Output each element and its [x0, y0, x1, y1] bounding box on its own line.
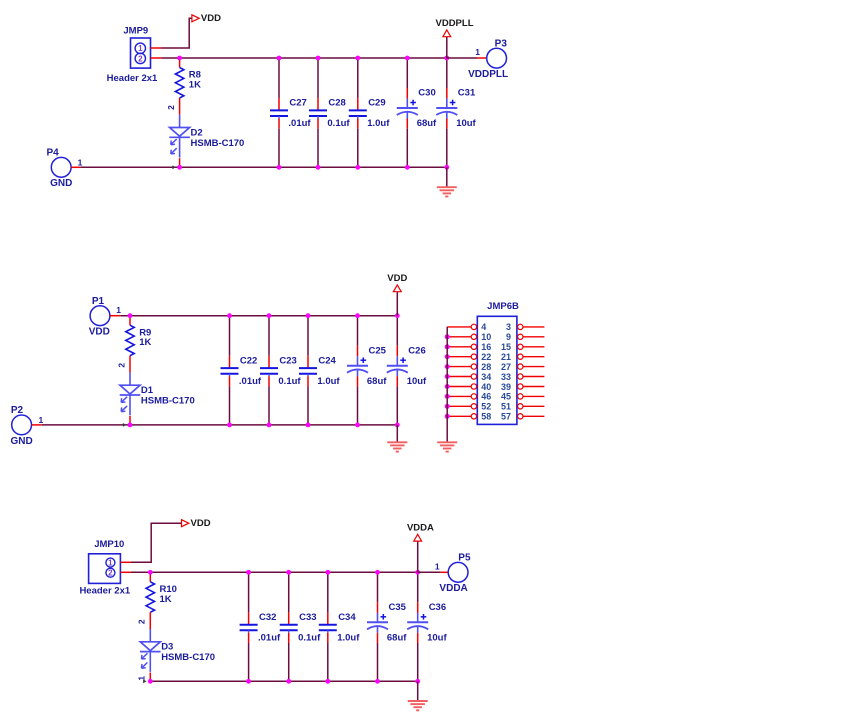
svg-text:10uf: 10uf [427, 633, 447, 644]
svg-text:58: 58 [481, 412, 491, 422]
svg-text:JMP9: JMP9 [123, 25, 148, 36]
svg-text:P5: P5 [458, 553, 471, 564]
svg-text:JMP6B: JMP6B [487, 301, 519, 312]
svg-text:C35: C35 [389, 602, 407, 613]
svg-text:C27: C27 [289, 98, 306, 109]
svg-text:16: 16 [481, 342, 491, 352]
svg-text:2: 2 [137, 619, 147, 624]
svg-text:P3: P3 [495, 39, 508, 50]
svg-text:2: 2 [138, 54, 143, 63]
svg-text:40: 40 [481, 382, 491, 392]
svg-text:VDDPLL: VDDPLL [436, 18, 474, 29]
svg-text:C24: C24 [318, 355, 336, 366]
svg-text:21: 21 [501, 352, 511, 362]
svg-text:.01uf: .01uf [258, 633, 281, 644]
svg-text:52: 52 [481, 402, 491, 412]
svg-text:C33: C33 [299, 612, 316, 623]
svg-text:68uf: 68uf [367, 376, 387, 387]
svg-text:P1: P1 [92, 296, 105, 307]
svg-text:VDD: VDD [201, 13, 221, 24]
svg-text:C30: C30 [418, 88, 435, 99]
svg-text:D3: D3 [161, 642, 173, 653]
svg-text:27: 27 [501, 362, 511, 372]
svg-text:VDD: VDD [89, 327, 110, 338]
svg-text:28: 28 [481, 362, 491, 372]
svg-text:JMP10: JMP10 [94, 539, 124, 550]
svg-text:VDDA: VDDA [407, 523, 434, 534]
svg-text:HSMB-C170: HSMB-C170 [141, 396, 195, 407]
svg-text:C36: C36 [429, 602, 446, 613]
svg-text:VDD: VDD [191, 518, 211, 529]
svg-text:1: 1 [475, 47, 480, 57]
svg-text:1K: 1K [139, 337, 151, 348]
svg-text:D1: D1 [141, 385, 154, 396]
svg-text:VDDA: VDDA [439, 583, 467, 594]
svg-text:45: 45 [501, 392, 511, 402]
svg-text:.01uf: .01uf [288, 118, 311, 129]
svg-text:1: 1 [435, 562, 440, 572]
svg-text:D2: D2 [191, 127, 203, 138]
svg-text:C26: C26 [408, 345, 425, 356]
svg-text:C31: C31 [458, 88, 476, 99]
svg-text:0.1uf: 0.1uf [327, 118, 350, 129]
svg-text:.01uf: .01uf [239, 376, 262, 387]
svg-text:Header 2x1: Header 2x1 [79, 585, 130, 596]
svg-text:C32: C32 [259, 612, 276, 623]
svg-text:46: 46 [481, 392, 491, 402]
svg-text:57: 57 [501, 412, 511, 422]
svg-text:51: 51 [501, 402, 511, 412]
svg-text:33: 33 [501, 372, 511, 382]
svg-text:0.1uf: 0.1uf [278, 376, 301, 387]
svg-text:1.0uf: 1.0uf [317, 376, 340, 387]
svg-text:C25: C25 [369, 345, 387, 356]
svg-text:C34: C34 [338, 612, 356, 623]
svg-text:22: 22 [481, 352, 491, 362]
svg-text:1: 1 [137, 676, 147, 681]
svg-text:GND: GND [50, 178, 72, 189]
svg-text:10uf: 10uf [456, 118, 476, 129]
svg-text:GND: GND [10, 436, 32, 447]
svg-text:2: 2 [108, 569, 113, 578]
svg-text:9: 9 [506, 332, 511, 342]
svg-text:34: 34 [481, 372, 491, 382]
svg-text:HSMB-C170: HSMB-C170 [191, 138, 245, 149]
svg-text:2: 2 [116, 363, 126, 368]
svg-text:1: 1 [78, 157, 83, 167]
svg-text:15: 15 [501, 342, 511, 352]
svg-text:3: 3 [506, 322, 511, 332]
svg-text:1: 1 [39, 415, 44, 425]
svg-text:2: 2 [166, 105, 176, 110]
svg-text:39: 39 [501, 382, 511, 392]
svg-text:10uf: 10uf [407, 376, 427, 387]
svg-text:1: 1 [138, 44, 143, 53]
svg-text:1.0uf: 1.0uf [337, 633, 360, 644]
svg-text:1K: 1K [189, 80, 201, 91]
svg-text:4: 4 [481, 322, 486, 332]
svg-text:P2: P2 [11, 405, 24, 416]
svg-text:C23: C23 [279, 355, 296, 366]
svg-text:1: 1 [108, 559, 113, 568]
svg-text:1: 1 [116, 305, 121, 315]
svg-text:68uf: 68uf [417, 118, 437, 129]
svg-text:Header 2x1: Header 2x1 [107, 73, 158, 84]
svg-text:10: 10 [481, 332, 491, 342]
svg-text:VDD: VDD [387, 273, 407, 284]
svg-text:C22: C22 [240, 355, 257, 366]
svg-text:VDDPLL: VDDPLL [468, 69, 508, 80]
svg-text:1.0uf: 1.0uf [367, 118, 390, 129]
svg-text:C29: C29 [368, 98, 385, 109]
svg-text:C28: C28 [328, 98, 345, 109]
svg-text:1K: 1K [160, 594, 172, 605]
svg-text:P4: P4 [46, 148, 59, 159]
svg-text:0.1uf: 0.1uf [298, 633, 321, 644]
svg-text:HSMB-C170: HSMB-C170 [161, 652, 215, 663]
svg-text:68uf: 68uf [387, 633, 407, 644]
